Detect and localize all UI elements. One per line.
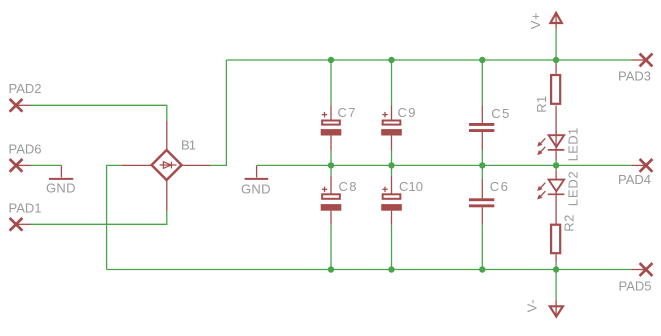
resistor R1 [551,60,560,135]
pin B1 right [181,164,211,166]
ground GND2 (middle bus) [245,165,269,179]
junction mid bus C5-C6 [479,162,485,168]
bridge rectifier B1 [152,150,182,180]
wire C9 column bottom [391,151,393,166]
LED LED2 [537,170,564,225]
wire C6 column bottom [481,224,483,269]
pin B1 left [122,164,152,166]
label V+ [528,13,543,30]
junction bottom bus C8 [328,266,334,272]
label V- [524,299,539,312]
wire C9 column top [391,60,393,105]
wire C8 column top [330,165,332,176]
supply V+ [550,13,561,29]
label GND2 [241,181,271,196]
wire C5 column top [481,60,483,105]
svg-text:C5: C5 [491,106,509,121]
wire C10 column bottom [391,225,393,270]
label B1 [181,138,196,153]
label PAD5 [619,279,652,294]
label C10 [399,179,423,194]
wire V+ symbol to top bus [555,29,557,60]
label C9 [398,105,416,120]
wire R2 bottom to bus [555,262,557,270]
svg-text:LED2: LED2 [566,171,581,206]
svg-text:R2: R2 [562,215,577,232]
svg-text:C8: C8 [339,179,357,194]
capacitor C10 [381,176,402,225]
wire net B1 right to V+ bus [211,60,227,165]
wire C7 column bottom [330,151,332,166]
LED LED1 [537,131,564,160]
label R2 [562,215,577,232]
junction mid bus LED [553,162,559,168]
supply V- [550,300,563,317]
svg-text:PAD4: PAD4 [618,172,651,187]
pin B1 bottom [166,180,168,211]
junction top bus R1 [553,57,559,63]
wire V- bottom bus [107,269,632,271]
wire bottom bus to V- symbol [555,270,557,300]
svg-text:PAD2: PAD2 [9,81,42,96]
capacitor C5 [469,105,494,150]
svg-text:PAD3: PAD3 [618,69,651,84]
capacitor C7 [321,105,342,151]
pad PAD4 [632,159,653,172]
wire C6 column top [481,165,483,179]
label PAD3 [618,69,651,84]
label PAD2 [9,81,42,96]
label C5 [491,106,509,121]
svg-text:PAD6: PAD6 [9,141,42,156]
resistor R2 [551,225,560,262]
ground GND1 (PAD6) [49,165,73,179]
pad PAD6 [10,159,31,172]
junction top bus C9 [388,57,394,63]
svg-text:C7: C7 [338,105,356,120]
label GND1 [46,180,76,195]
wire C5 column bottom [481,150,483,165]
svg-text:C10: C10 [399,179,423,194]
wire V+ top bus [226,59,631,61]
label R1 [534,96,549,113]
label LED2 [566,171,581,206]
label PAD6 [9,141,42,156]
svg-text:GND: GND [241,181,271,196]
junction bottom bus R2 [553,266,559,272]
capacitor C9 [381,105,402,151]
svg-text:C9: C9 [398,105,416,120]
svg-text:GND: GND [46,180,76,195]
svg-text:B1: B1 [181,138,196,153]
wire GND middle bus [257,164,632,166]
label C6 [490,179,508,194]
svg-text:PAD5: PAD5 [619,279,652,294]
pad PAD1 [10,218,31,231]
junction bottom bus C10 [388,266,394,272]
wire net PAD1 to B1 bottom [31,211,167,224]
svg-text:R1: R1 [534,96,549,113]
wire C8 column bottom [330,225,332,270]
wire C7 column top [330,60,332,105]
label C8 [339,179,357,194]
junction top bus C5 [479,57,485,63]
capacitor C8 [321,176,342,225]
label C7 [338,105,356,120]
junction bottom bus C6 [479,266,485,272]
svg-text:LED1: LED1 [566,128,581,162]
pad PAD2 [10,99,31,112]
wire net PAD6 to GND [31,164,61,166]
wire net PAD2 to B1 top [31,105,167,120]
svg-text:V-: V- [524,299,539,312]
label PAD4 [618,172,651,187]
label PAD1 [9,201,42,216]
wire LED junction segment [555,160,557,170]
svg-text:C6: C6 [490,179,508,194]
junction mid bus C9-C10 [388,162,394,168]
pin B1 top [166,120,168,150]
junction top bus C7 [328,57,334,63]
wire C10 column top [391,165,393,176]
svg-text:V+: V+ [528,13,543,30]
svg-text:PAD1: PAD1 [9,201,42,216]
wire net B1 left to V- bus [107,165,122,269]
pad PAD5 [632,263,653,276]
pad PAD3 [632,54,653,67]
capacitor C6 [469,179,494,224]
label LED1 [566,128,581,162]
junction mid bus C7-C8 [328,162,334,168]
